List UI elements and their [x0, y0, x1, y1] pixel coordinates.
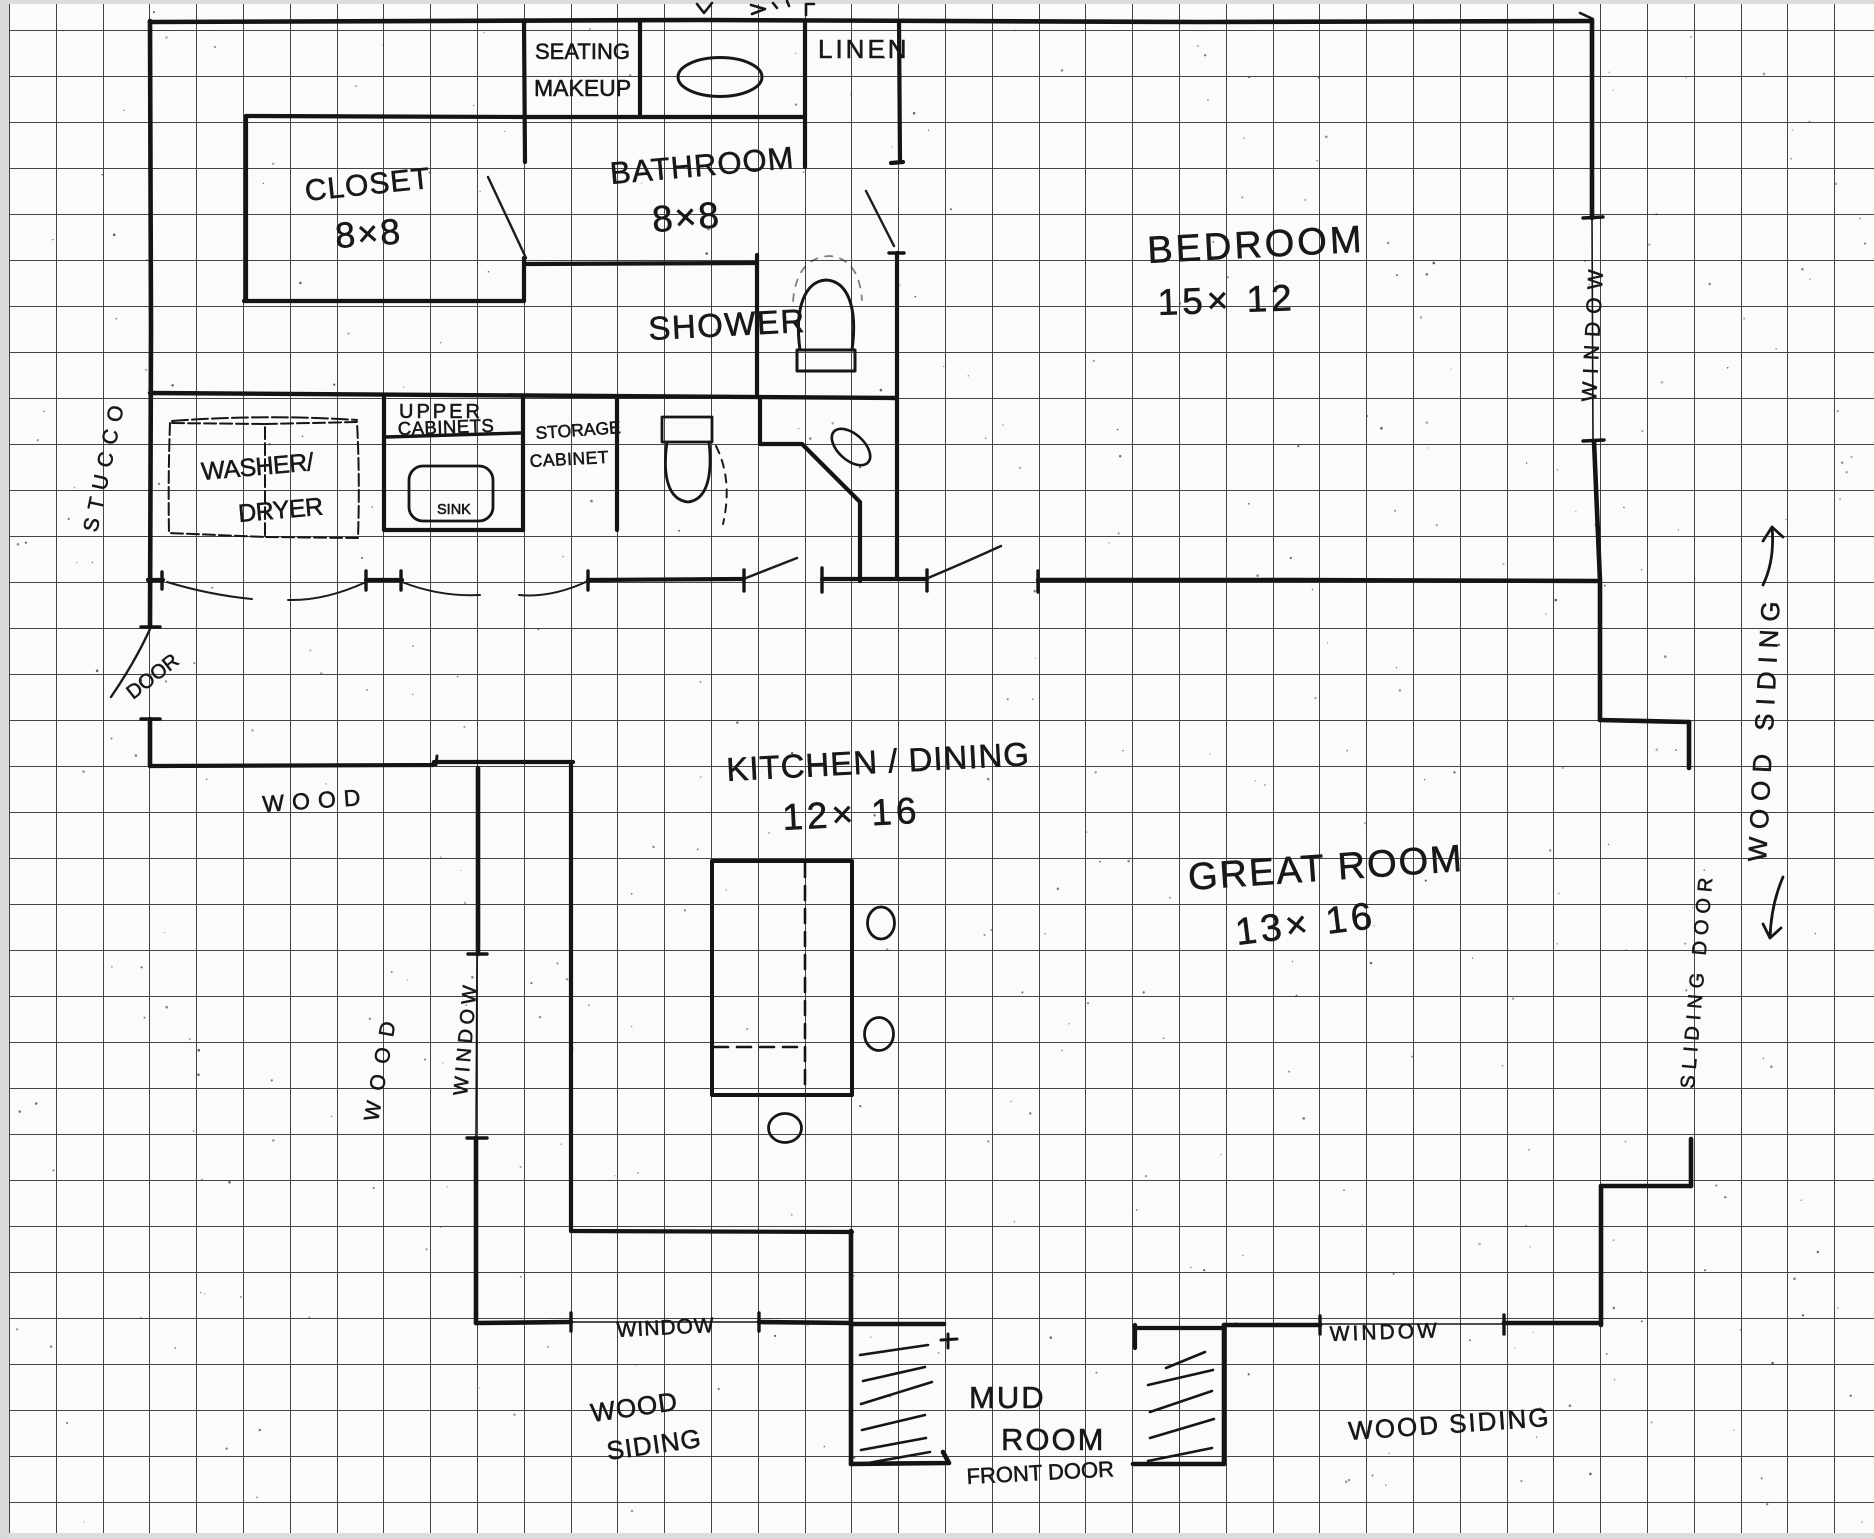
- wall shower left x757: [755, 255, 759, 397]
- top wall cutoff marks: [697, 1, 1593, 19]
- stool circle 2: [865, 1018, 894, 1051]
- wall laundry counter right x523: [521, 397, 525, 530]
- tick south window greatroom right: [1502, 1315, 1505, 1334]
- wall laundry north y395: [150, 393, 895, 398]
- tick y579 x401: [399, 571, 402, 590]
- wall bedroom west x897: [895, 253, 899, 579]
- wall closet right lower x524: [522, 258, 526, 301]
- wall exterior south from kitchen to mudroom: [759, 1322, 851, 1323]
- wall mudroom right box top: [1135, 1326, 1224, 1330]
- tick kitchen window west top: [468, 952, 487, 955]
- wall mudroom right box bottom: [1133, 1462, 1224, 1467]
- wall laundry closet y579 mid stub: [366, 578, 402, 582]
- wall y579 from storage to bath door: [588, 579, 744, 580]
- wall mudroom left box bottom with arrow end: [851, 1452, 949, 1464]
- wall mudroom right box east x1224: [1222, 1325, 1227, 1464]
- wall closet left: [244, 116, 248, 301]
- window kitchen west thin line: [476, 954, 477, 1138]
- cabinet front line upper cabinets: [386, 433, 520, 437]
- wall exterior left: [150, 21, 151, 627]
- svg-text:CABINETS: CABINETS: [397, 415, 494, 439]
- door arc laundry opening2 leaf b: [519, 581, 588, 595]
- tick y579 x366: [364, 571, 367, 590]
- door arc laundry opening1 leaf a: [167, 582, 252, 599]
- wall laundry counter left x384: [382, 397, 386, 530]
- wall exterior south west segment: [476, 1322, 571, 1323]
- wall exterior top: [150, 20, 1592, 22]
- window south kitchen thin line: [571, 1321, 759, 1323]
- window bedroom east thin line: [1592, 218, 1593, 441]
- wall exterior west kitchen lower x476: [474, 1138, 479, 1323]
- wall closet right upper x524: [524, 21, 525, 162]
- door leaf exterior left: [111, 629, 150, 697]
- door arc laundry opening1 leaf b: [288, 582, 366, 600]
- svg-text:8×8: 8×8: [334, 210, 404, 256]
- wall laundry counter south y530: [384, 528, 523, 532]
- arrow wood siding sw: [1763, 877, 1783, 938]
- door dashed halo shower: [793, 256, 862, 301]
- wc oval sink: [825, 422, 877, 472]
- shower toilet dome: [798, 280, 853, 350]
- wall kitchen alcove south y1231: [571, 1231, 852, 1232]
- tick y579 x822: [820, 568, 823, 592]
- svg-text:CABINET: CABINET: [529, 447, 609, 471]
- wall bath y117: [524, 115, 805, 119]
- wall closet bottom: [244, 299, 524, 303]
- wall exterior east step top y720: [1600, 720, 1689, 722]
- wall mudroom right box stub x1135: [1133, 1325, 1137, 1348]
- window south great room thin line: [1320, 1323, 1504, 1325]
- wall exterior east lower x1601: [1599, 1186, 1604, 1325]
- tick y579 x588: [586, 571, 589, 590]
- svg-text:MUD: MUD: [969, 1380, 1046, 1415]
- wall hall south y579 left stub: [148, 578, 163, 582]
- wall storage right x617: [615, 397, 619, 530]
- wall exterior west kitchen upper x478: [476, 768, 481, 954]
- wall mudroom left box west x851: [849, 1231, 854, 1464]
- door leaf closet: [488, 177, 526, 258]
- stool circle 1: [868, 907, 895, 939]
- tick y579 x744: [742, 570, 745, 591]
- tick y579 x1038: [1036, 571, 1039, 592]
- wall linen hook: [891, 162, 903, 163]
- tick south window kitchen right: [757, 1313, 760, 1331]
- svg-text:12× 16: 12× 16: [781, 790, 921, 838]
- tick door left wall lower: [141, 717, 160, 720]
- wall stub y765 start hook: [436, 756, 437, 765]
- wall exterior east upper x1592: [1590, 21, 1595, 218]
- toilet hall tank: [662, 417, 712, 442]
- wall seating right x640: [638, 22, 642, 114]
- laundry sink rounded: [409, 466, 493, 521]
- tick y579 x162: [160, 572, 163, 589]
- tick bedroom window top: [1583, 217, 1603, 218]
- wall exterior south mudroom left box top: [851, 1322, 944, 1327]
- svg-text:15× 12: 15× 12: [1157, 277, 1297, 323]
- tick south window kitchen left: [569, 1313, 572, 1331]
- wall exterior east step y1186: [1601, 1184, 1691, 1189]
- tick door left wall upper: [141, 625, 160, 628]
- svg-text:ROOM: ROOM: [1001, 1422, 1105, 1457]
- door leaf bedroom south: [928, 546, 1001, 578]
- wall shower top y264: [526, 263, 757, 264]
- svg-text:MAKEUP: MAKEUP: [534, 75, 631, 101]
- svg-text:LINEN: LINEN: [818, 34, 910, 64]
- wall exterior south mudroom to window: [1224, 1323, 1320, 1328]
- svg-text:WINDOW: WINDOW: [1329, 1319, 1440, 1346]
- kitchen island dashed divider vertical: [804, 863, 807, 1093]
- door leaf bedroom west: [866, 191, 894, 246]
- wall linen left x805: [803, 21, 807, 167]
- wall exterior east below sliding door: [1689, 1139, 1694, 1186]
- tick south window greatroom left: [1318, 1316, 1321, 1334]
- svg-text:SINK: SINK: [437, 502, 471, 518]
- wall kitchen interior west x571: [569, 765, 573, 1231]
- kitchen island rectangle: [712, 861, 852, 1095]
- arrow wood siding ne: [1763, 527, 1783, 585]
- washer dryer sketch box: [169, 423, 265, 537]
- svg-text:8×8: 8×8: [651, 194, 722, 240]
- wall hall south y765: [151, 762, 573, 766]
- bathtub oval: [678, 58, 762, 97]
- wall mudroom left box tick x948: [941, 1334, 957, 1348]
- door dashed arc toilet hall: [716, 446, 727, 524]
- wall exterior east step x1689: [1687, 722, 1692, 768]
- wall wc partition: [760, 398, 860, 581]
- wall closet top: [246, 116, 524, 117]
- wall y579 under bedroom to east wall: [1038, 580, 1600, 581]
- wall exterior south segment east: [1504, 1321, 1601, 1326]
- wall y579 between bath door and bedroom door: [822, 577, 927, 581]
- door arc laundry opening2 leaf a: [402, 582, 480, 595]
- mudroom right hatches: [1148, 1352, 1214, 1461]
- stool circle 3: [769, 1114, 802, 1143]
- scan edge bands: [0, 0, 1874, 4]
- mudroom left hatches: [860, 1345, 932, 1463]
- shower toilet base: [797, 350, 855, 371]
- kitchen island dashed divider horizontal: [714, 1046, 803, 1049]
- wall exterior east mid x1596: [1594, 441, 1600, 720]
- tick shower corner x897: [889, 251, 904, 254]
- tick y579 x927: [925, 570, 928, 591]
- door leaf bath south: [746, 558, 797, 578]
- tick bedroom window bottom: [1583, 440, 1604, 441]
- toilet hall bowl: [665, 442, 710, 502]
- wall linen right x899: [899, 21, 900, 162]
- wall exterior left lower segment: [148, 719, 153, 766]
- tick kitchen window west bottom: [467, 1136, 487, 1139]
- svg-text:SEATING: SEATING: [535, 39, 630, 64]
